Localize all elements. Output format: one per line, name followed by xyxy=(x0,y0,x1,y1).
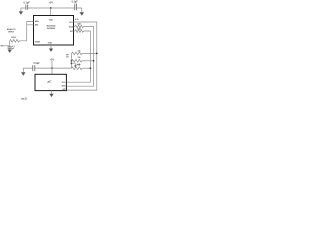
IC U2 (microcontroller) xyxy=(35,74,66,91)
wire rail right end xyxy=(81,8,83,12)
wire rail VDD stub xyxy=(71,63,75,65)
node rail junction xyxy=(71,60,73,62)
wire SCL line to uC xyxy=(66,22,96,90)
ground bypass cap xyxy=(21,72,25,75)
svg-text:SDA: SDA xyxy=(62,85,67,88)
ground IC GND xyxy=(49,49,53,52)
svg-text:GND: GND xyxy=(48,43,53,45)
svg-text:4.7k: 4.7k xyxy=(75,18,80,21)
svg-text:0.1µF: 0.1µF xyxy=(72,1,79,4)
wire bypass feed to rail xyxy=(52,67,71,69)
svg-text:SDA: SDA xyxy=(69,26,74,29)
wire VDD pin drop xyxy=(50,8,52,16)
svg-text:10k: 10k xyxy=(66,56,69,58)
svg-text:toc11: toc11 xyxy=(21,97,28,100)
wire cap ground drop xyxy=(22,68,24,72)
svg-text:SCL: SCL xyxy=(62,82,67,84)
wire SDA line to uC xyxy=(66,27,93,87)
svg-text:AIN-: AIN- xyxy=(35,23,39,26)
capacitor C3 0.1uF input shunt xyxy=(8,46,15,50)
capacitor C4 0.1uF uC bypass xyxy=(23,62,52,71)
wire R4 to line xyxy=(82,52,97,54)
resistor R2 series SDA xyxy=(75,23,84,28)
resistor R3 series INT xyxy=(75,27,84,32)
node R6/INT xyxy=(90,67,92,69)
ground uC xyxy=(49,94,53,97)
label analog input xyxy=(7,28,16,33)
node R4/SCL xyxy=(96,53,98,55)
power arrow down at rail end xyxy=(80,12,84,15)
IC U1 (I2C ADC, MAX6625/MAX6626) xyxy=(34,16,74,46)
node uC supply xyxy=(50,60,55,75)
wire VDD rail xyxy=(21,7,82,9)
resistor R5 pull-up SDA xyxy=(72,57,82,62)
svg-text:10k: 10k xyxy=(78,57,81,59)
node VIN terminal xyxy=(0,46,4,48)
svg-text:AIN+: AIN+ xyxy=(35,20,40,23)
svg-text:MAX6626: MAX6626 xyxy=(47,28,56,30)
svg-text:µC: µC xyxy=(47,79,53,83)
wire C1 ground drop xyxy=(20,8,22,12)
power arrow down VDD stub xyxy=(74,66,76,68)
svg-text:INPUT: INPUT xyxy=(8,32,15,34)
label rail left 2 lines xyxy=(66,54,70,58)
svg-text:VIN: VIN xyxy=(0,46,4,48)
capacitor C2 0.1uF top-right bypass xyxy=(72,1,79,11)
svg-text:VDD: VDD xyxy=(49,19,54,21)
ground top-left xyxy=(19,11,23,14)
svg-text:24Ω: 24Ω xyxy=(77,27,81,30)
node R5/SDA xyxy=(93,60,95,62)
svg-text:SHDN: SHDN xyxy=(35,42,41,44)
svg-text:10kΩ: 10kΩ xyxy=(11,37,16,39)
wire INT line to uC xyxy=(66,31,90,82)
wire R6 to line xyxy=(82,67,90,69)
wire GND pin drop xyxy=(50,45,52,49)
resistor R6 pull-up INT xyxy=(72,64,82,69)
svg-text:10k: 10k xyxy=(78,64,81,66)
svg-text:24Ω: 24Ω xyxy=(77,23,81,26)
svg-text:0.1µF: 0.1µF xyxy=(24,2,31,5)
wire input run xyxy=(4,41,10,46)
svg-text:µF: µF xyxy=(12,48,15,50)
resistor R1 10k input series xyxy=(10,37,20,42)
svg-text:10k: 10k xyxy=(78,51,81,53)
capacitor C1 0.1uF top-left bypass xyxy=(24,2,31,10)
svg-text:0.1µF: 0.1µF xyxy=(33,62,40,65)
wire resistor to AIN pins xyxy=(20,21,34,40)
ground input cap xyxy=(8,50,12,53)
wire pull-up rail xyxy=(70,53,72,68)
resistor R4 pull-up SCL xyxy=(72,51,82,55)
wire uC GND drop xyxy=(51,91,53,94)
node +5V junction xyxy=(49,2,54,8)
wire R5 to line xyxy=(82,60,94,62)
svg-text:+5V: +5V xyxy=(49,2,54,4)
